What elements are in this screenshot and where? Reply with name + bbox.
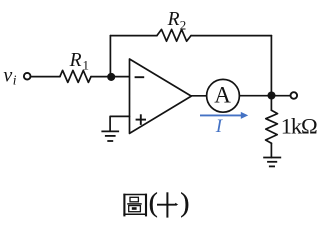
resistor 1k ohm <box>266 110 278 143</box>
current arrow I <box>200 112 248 119</box>
wire plus input to ground <box>110 116 129 130</box>
output terminal <box>291 92 298 99</box>
svg-text:A: A <box>214 83 231 108</box>
svg-text:2: 2 <box>180 17 187 32</box>
wire vi terminal to R1 <box>31 76 60 78</box>
wire node to R2 vertical <box>109 36 111 77</box>
wire output node to 1k resistor <box>270 96 272 111</box>
wire top left to R2 <box>110 35 156 37</box>
svg-text:v: v <box>3 65 12 87</box>
wire ammeter to output node <box>239 95 290 97</box>
label R2 <box>167 9 187 33</box>
wire feedback down to output node <box>270 36 272 96</box>
resistor R2 <box>157 29 191 41</box>
resistor R1 <box>60 70 91 82</box>
label R1 <box>69 50 89 72</box>
ammeter A1 circle <box>207 79 240 112</box>
node junction at inverting input <box>107 73 115 81</box>
svg-text:1kΩ: 1kΩ <box>281 114 317 139</box>
caption glyph ten (十) <box>157 192 178 217</box>
label vi <box>3 65 16 88</box>
input terminal vi <box>24 73 31 80</box>
op-amp plus sign <box>136 114 146 125</box>
svg-text:I: I <box>215 116 224 137</box>
svg-text:i: i <box>13 73 17 88</box>
ground at op-amp plus input <box>101 131 119 141</box>
svg-text:(: ( <box>149 188 158 218</box>
wire op-amp output to ammeter <box>191 95 207 97</box>
op-amp U1 <box>130 59 192 133</box>
wire R1 to op-amp inverting input <box>91 76 130 78</box>
op-amp minus sign <box>135 76 145 78</box>
caption figure glyph tu (圖) <box>123 194 147 217</box>
wire 1k resistor to ground <box>270 143 272 157</box>
node junction at output <box>267 91 275 99</box>
svg-text:): ) <box>180 188 189 218</box>
svg-text:R: R <box>167 9 180 30</box>
svg-text:1: 1 <box>83 57 90 72</box>
wire R2 to right vertical <box>191 35 271 37</box>
ground at load resistor <box>263 158 281 167</box>
svg-text:R: R <box>69 50 82 71</box>
